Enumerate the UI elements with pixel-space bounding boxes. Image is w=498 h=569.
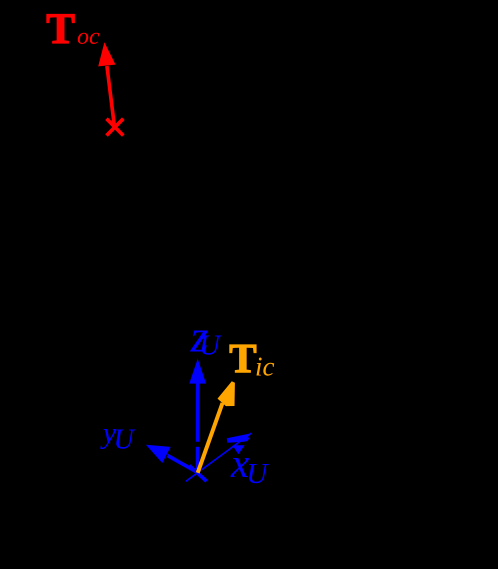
arrow T_oc (98, 42, 115, 124)
y axis (blue) (146, 445, 198, 473)
label x_U (230, 440, 269, 490)
label T_oc (46, 6, 100, 53)
origin marker (blue cross) (189, 466, 206, 482)
label z_U (190, 311, 222, 362)
label T_ic (229, 335, 274, 382)
svg-text:U: U (246, 458, 269, 490)
svg-text:oc: oc (77, 24, 100, 50)
label y_U (100, 417, 136, 456)
x axis (blue) (186, 433, 252, 481)
svg-text:U: U (114, 425, 136, 456)
svg-text:ic: ic (255, 352, 275, 382)
marker x (red cross) (107, 119, 124, 136)
svg-text:U: U (199, 330, 222, 362)
z axis (blue) (189, 359, 206, 469)
svg-text:T: T (229, 335, 256, 381)
svg-text:T: T (46, 6, 75, 53)
arrow T_ic (orange) (198, 381, 235, 473)
